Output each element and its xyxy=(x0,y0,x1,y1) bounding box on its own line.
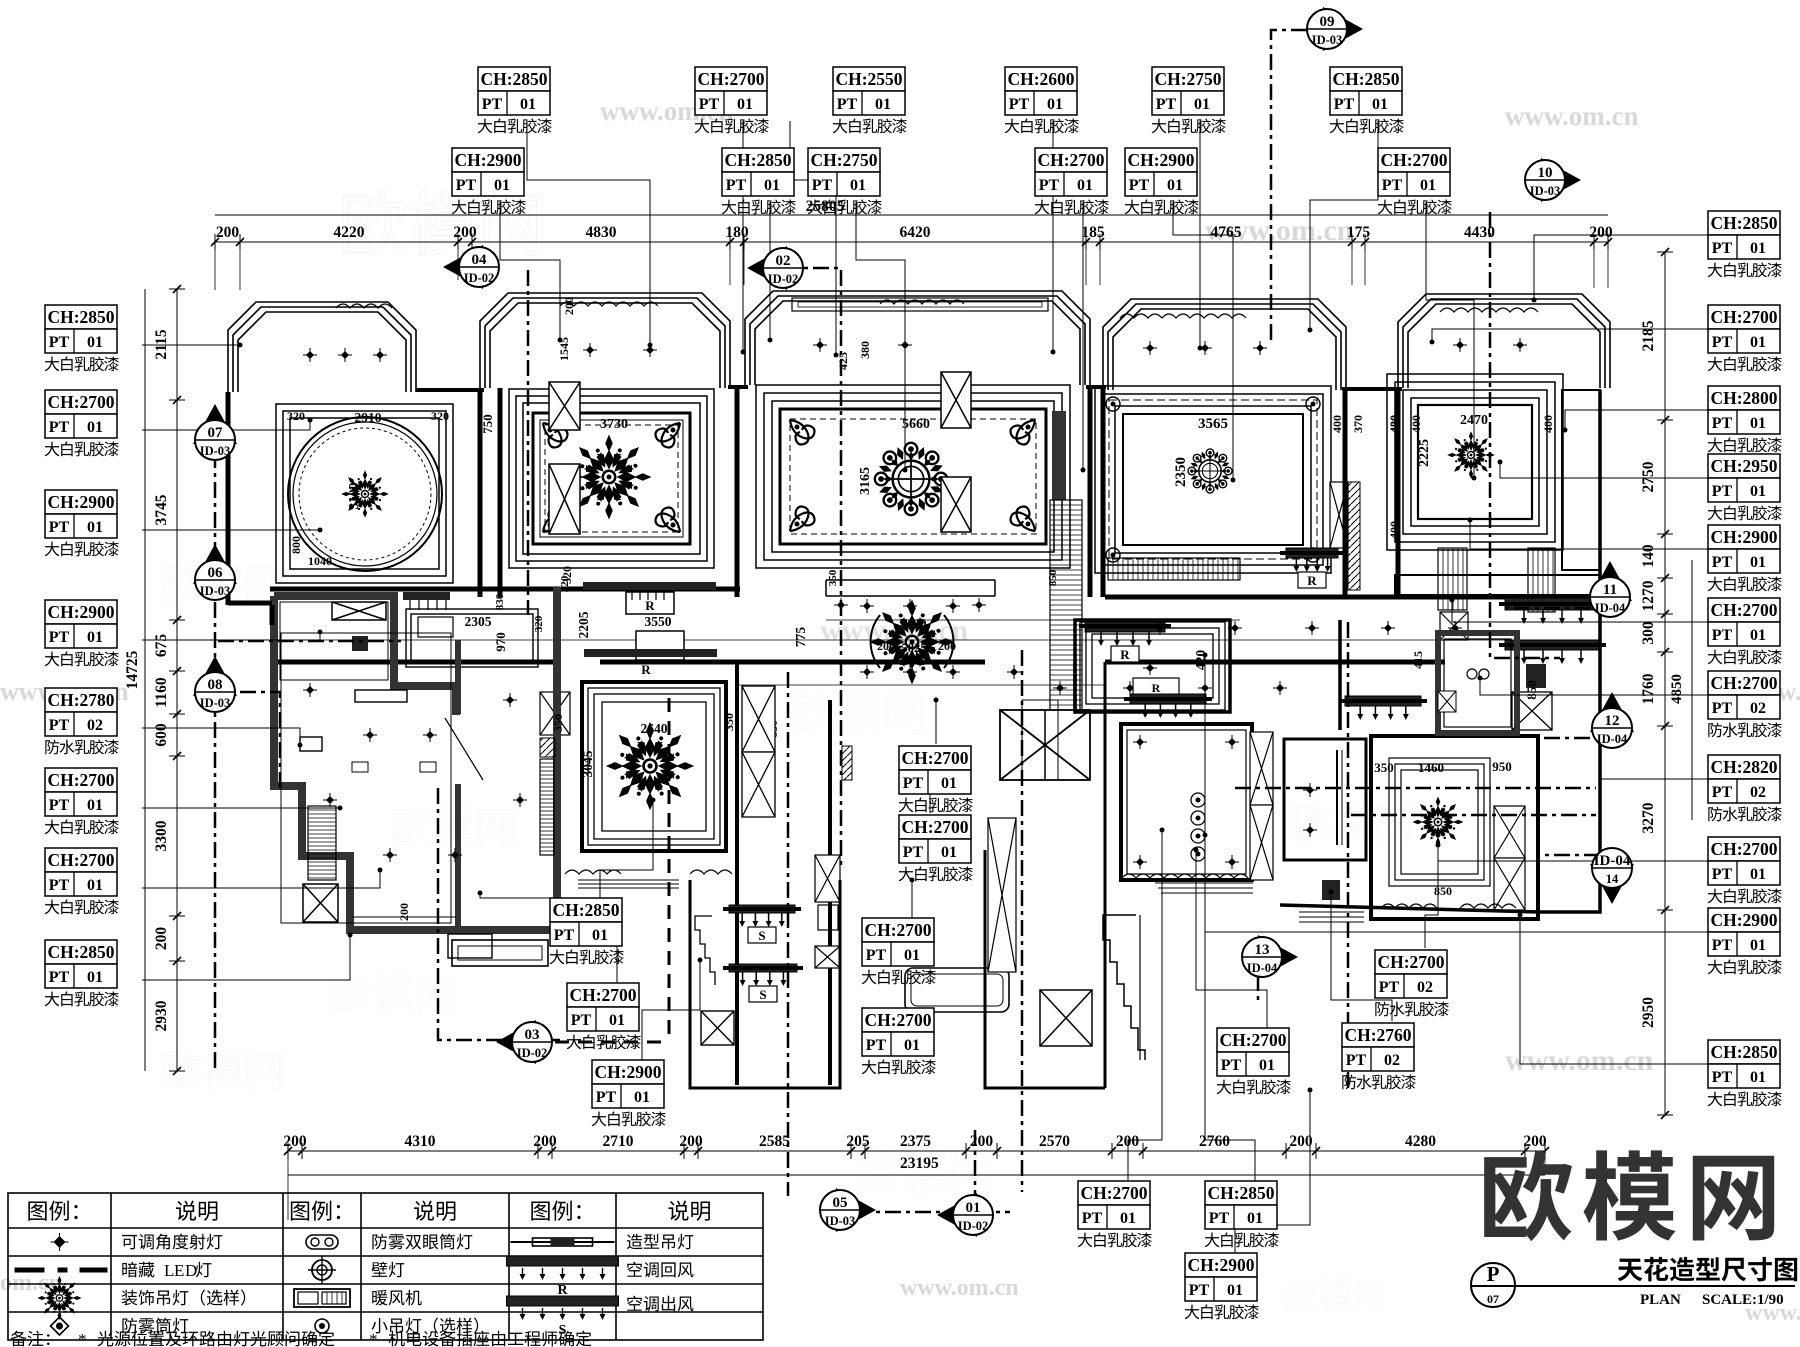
title text 天花造型尺寸图 xyxy=(1618,1259,1643,1282)
corridor H walls xyxy=(737,662,830,1085)
label CH:2600 xyxy=(1005,67,1079,133)
big logo 欧模网 xyxy=(1484,1150,1572,1241)
svg-text:CH:2700: CH:2700 xyxy=(864,1010,931,1030)
svg-text:01: 01 xyxy=(494,177,510,194)
dimension line vertical x=177 xyxy=(169,285,185,1075)
svg-text:PT: PT xyxy=(726,177,747,194)
svg-text:PT: PT xyxy=(456,177,477,194)
room F partition + door xyxy=(455,640,461,926)
label CH:2700 xyxy=(862,918,936,984)
svg-text:PT: PT xyxy=(1712,554,1733,571)
svg-text:3550: 3550 xyxy=(645,614,672,629)
svg-text:5825: 5825 xyxy=(902,641,927,655)
x-box columns xyxy=(549,382,580,430)
small hatch strip left of CH box xyxy=(842,746,852,780)
label CH:2700 xyxy=(1378,148,1452,214)
svg-text:04: 04 xyxy=(472,252,488,268)
legend symbol anti-fog downlight xyxy=(51,1317,69,1335)
svg-text:07: 07 xyxy=(208,425,224,441)
svg-text:CH:2700: CH:2700 xyxy=(901,817,968,837)
legend table xyxy=(8,1193,763,1340)
svg-text:02: 02 xyxy=(1750,784,1766,801)
label CH:2700 xyxy=(862,1008,936,1074)
room J walls xyxy=(1121,724,1252,880)
svg-text:350: 350 xyxy=(1374,760,1394,775)
svg-text:01: 01 xyxy=(764,177,780,194)
svg-text:CH:2850: CH:2850 xyxy=(1710,213,1777,233)
legend symbol shaped pendant bar xyxy=(511,1241,615,1243)
svg-text:415: 415 xyxy=(1411,651,1425,669)
svg-text:P: P xyxy=(1487,1262,1500,1286)
label CH:2700 xyxy=(899,746,973,812)
svg-text:775: 775 xyxy=(793,627,808,648)
svg-text:CH:2600: CH:2600 xyxy=(1007,69,1074,89)
svg-text:ID-03: ID-03 xyxy=(200,584,231,598)
svg-text:PT: PT xyxy=(49,969,70,986)
svg-text:3300: 3300 xyxy=(153,820,170,851)
corridor lamp rows right wing xyxy=(1156,624,1164,632)
svg-text:CH:2780: CH:2780 xyxy=(47,690,114,710)
svg-text:PT: PT xyxy=(1712,937,1733,954)
svg-text:PT: PT xyxy=(837,96,858,113)
svg-text:180: 180 xyxy=(725,224,749,241)
svg-text:PT: PT xyxy=(1712,240,1733,257)
note text under legend xyxy=(11,1331,27,1347)
svg-text:*: * xyxy=(78,1330,87,1347)
comb hatch below room D xyxy=(1108,558,1240,580)
svg-text:CH:2850: CH:2850 xyxy=(47,307,114,327)
svg-text:CH:2900: CH:2900 xyxy=(1127,150,1194,170)
svg-text:01: 01 xyxy=(1247,1210,1263,1227)
svg-text:PT: PT xyxy=(1346,1052,1367,1069)
svg-text:S: S xyxy=(759,987,766,1002)
svg-text:PT: PT xyxy=(812,177,833,194)
svg-text:CH:2700: CH:2700 xyxy=(1380,150,1447,170)
svg-text:PT: PT xyxy=(49,334,70,351)
svg-text:01: 01 xyxy=(1194,96,1210,113)
label CH:2900 xyxy=(1125,148,1199,214)
steps below room J xyxy=(1155,883,1253,893)
svg-text:5920: 5920 xyxy=(902,617,927,631)
svg-text:CH:2950: CH:2950 xyxy=(1710,456,1777,476)
small bench bottom-left xyxy=(452,940,548,966)
svg-text:2350: 2350 xyxy=(1173,457,1189,487)
central strip xboxes between rooms xyxy=(815,855,840,902)
svg-text:2640: 2640 xyxy=(641,721,668,736)
svg-text:PT: PT xyxy=(903,844,924,861)
detail marker 14/ID-04 xyxy=(1590,848,1634,904)
svg-text:PT: PT xyxy=(1712,784,1733,801)
legend symbol double-eye downlight xyxy=(306,1235,338,1249)
svg-text:850: 850 xyxy=(1524,680,1539,700)
detail marker 07/ID-03 xyxy=(193,404,237,460)
svg-text:200: 200 xyxy=(562,297,576,315)
room C large nested ceiling xyxy=(756,385,1070,568)
svg-text:850: 850 xyxy=(1434,884,1452,898)
svg-text:1760: 1760 xyxy=(1640,673,1657,704)
svg-text:02: 02 xyxy=(1384,1052,1400,1069)
svg-text:185: 185 xyxy=(1081,224,1105,241)
label CH:2700 xyxy=(1708,305,1782,371)
svg-text:3745: 3745 xyxy=(153,494,170,525)
room B nested ceiling xyxy=(509,389,714,568)
svg-text:3100: 3100 xyxy=(346,482,361,509)
svg-text:10: 10 xyxy=(1538,165,1553,181)
svg-text:01: 01 xyxy=(1227,1282,1243,1299)
svg-text:ID-04: ID-04 xyxy=(1595,601,1626,615)
svg-text:350: 350 xyxy=(827,569,839,586)
svg-text:01: 01 xyxy=(87,877,103,894)
top dim extension lines xyxy=(215,242,1608,290)
svg-text:D: D xyxy=(185,1261,197,1280)
svg-text:ID-03: ID-03 xyxy=(200,444,231,458)
svg-text:1460: 1460 xyxy=(1418,760,1444,775)
svg-text:01: 01 xyxy=(737,96,753,113)
corridor small room boxes xyxy=(406,609,538,667)
detail marker 04/ID-02 xyxy=(443,245,499,289)
svg-text:01: 01 xyxy=(87,797,103,814)
svg-text:4220: 4220 xyxy=(334,224,365,241)
room F bottom-left walls xyxy=(274,587,557,930)
svg-text:CH:2760: CH:2760 xyxy=(1344,1025,1411,1045)
bench below room F xyxy=(448,934,492,958)
svg-text:CH:2700: CH:2700 xyxy=(1037,150,1104,170)
svg-text:01: 01 xyxy=(1750,483,1766,500)
corridor lamp rows center xyxy=(837,601,845,609)
svg-text:CH:2700: CH:2700 xyxy=(47,392,114,412)
svg-text:3270: 3270 xyxy=(1640,802,1657,833)
svg-text:PT: PT xyxy=(49,797,70,814)
svg-text:CH:2700: CH:2700 xyxy=(47,850,114,870)
svg-text:850: 850 xyxy=(1047,569,1059,586)
svg-text:L: L xyxy=(164,1261,174,1280)
svg-text:23195: 23195 xyxy=(900,1155,939,1172)
svg-text:02: 02 xyxy=(1750,700,1766,717)
room F furniture marks xyxy=(355,690,407,702)
main top walls between bays xyxy=(416,387,1402,390)
svg-text:CH:2750: CH:2750 xyxy=(1154,69,1221,89)
svg-text:PT: PT xyxy=(1209,1210,1230,1227)
svg-text:PT: PT xyxy=(1712,866,1733,883)
svg-text:CH:2700: CH:2700 xyxy=(1710,839,1777,859)
detail marker 10/ID-03 xyxy=(1525,158,1581,202)
svg-text:ID-03: ID-03 xyxy=(1530,184,1561,198)
svg-text:2185: 2185 xyxy=(1640,320,1657,351)
tub shape xyxy=(905,968,1009,1012)
svg-text:E: E xyxy=(174,1261,184,1280)
svg-text:2910: 2910 xyxy=(355,410,382,425)
svg-text:380: 380 xyxy=(858,341,872,359)
svg-text:200: 200 xyxy=(938,639,956,653)
svg-text:200: 200 xyxy=(970,1133,994,1150)
detail marker 09/ID-03 xyxy=(1307,7,1363,51)
svg-text:675: 675 xyxy=(153,634,170,658)
corridor rosette medallion xyxy=(870,600,955,685)
svg-text:2930: 2930 xyxy=(153,1000,170,1031)
svg-text:4765: 4765 xyxy=(1211,224,1242,241)
svg-text:R: R xyxy=(641,662,651,677)
svg-text:01: 01 xyxy=(1750,627,1766,644)
svg-text:CH:2700: CH:2700 xyxy=(864,920,931,940)
svg-text:PT: PT xyxy=(866,947,887,964)
svg-text:300: 300 xyxy=(1640,621,1657,645)
svg-text:200: 200 xyxy=(153,927,170,951)
svg-text:CH:2850: CH:2850 xyxy=(1710,1042,1777,1062)
svg-text:PT: PT xyxy=(1712,1069,1733,1086)
label CH:2850 xyxy=(1330,67,1404,133)
svg-text:PT: PT xyxy=(1712,334,1733,351)
svg-text:01: 01 xyxy=(904,947,920,964)
legend symbol AC return xyxy=(507,1256,619,1266)
svg-text:01: 01 xyxy=(966,1200,981,1216)
svg-text:CH:2850: CH:2850 xyxy=(47,942,114,962)
svg-text:01: 01 xyxy=(1750,554,1766,571)
svg-text:1040: 1040 xyxy=(308,554,332,568)
svg-text:CH:2700: CH:2700 xyxy=(47,770,114,790)
detail marker 05/ID-03 xyxy=(820,1188,876,1232)
svg-text:600: 600 xyxy=(153,723,170,747)
svg-text:CH:2850: CH:2850 xyxy=(724,150,791,170)
detail marker 08/ID-03 xyxy=(193,656,237,712)
3550 box xyxy=(636,631,684,660)
bay window outline xyxy=(745,291,1090,385)
svg-text:01: 01 xyxy=(875,96,891,113)
svg-text:13: 13 xyxy=(1255,942,1270,958)
svg-text:01: 01 xyxy=(1077,177,1093,194)
label CH:2900 xyxy=(45,490,119,556)
svg-text:4830: 4830 xyxy=(586,224,617,241)
svg-text:CH:2700: CH:2700 xyxy=(1377,952,1444,972)
label CH:2700 xyxy=(899,815,973,881)
svg-text:R: R xyxy=(1152,681,1161,695)
svg-text:350: 350 xyxy=(722,713,736,731)
long dash-dot central left xyxy=(787,672,790,1196)
bathroom top-right xyxy=(1438,633,1517,733)
svg-text:PT: PT xyxy=(1379,979,1400,996)
bay window outline xyxy=(1398,294,1610,388)
svg-text:320: 320 xyxy=(431,409,449,423)
bay window outline xyxy=(228,302,416,392)
x strip in room L xyxy=(1494,806,1525,858)
svg-text:CH:2900: CH:2900 xyxy=(594,1062,661,1082)
room A walls + circular ceiling xyxy=(276,404,453,583)
svg-text:PT: PT xyxy=(571,1012,592,1029)
svg-text:www.om.cn: www.om.cn xyxy=(1505,1044,1654,1077)
label CH:2850 xyxy=(722,148,796,214)
svg-text:*: * xyxy=(369,1330,378,1347)
svg-text:2225: 2225 xyxy=(1417,439,1432,467)
svg-text:PT: PT xyxy=(1712,627,1733,644)
svg-text:08: 08 xyxy=(208,677,223,693)
room F interior thin outline xyxy=(281,633,451,923)
svg-text:PT: PT xyxy=(1221,1057,1242,1074)
bay window outline xyxy=(1103,299,1346,390)
svg-text:CH:2900: CH:2900 xyxy=(47,602,114,622)
hall outline below room C xyxy=(826,580,995,596)
svg-text:PT: PT xyxy=(866,1037,887,1054)
svg-text:CH:2800: CH:2800 xyxy=(1710,388,1777,408)
detail marker 03/ID-02 xyxy=(496,1020,552,1064)
dimension line horizontal y=1151 xyxy=(284,1143,1549,1159)
svg-text:CH:2850: CH:2850 xyxy=(552,900,619,920)
legend symbol decorative chandelier xyxy=(37,1276,81,1320)
room K walls xyxy=(1284,739,1366,860)
svg-text:01: 01 xyxy=(1167,177,1183,194)
svg-text:4850: 4850 xyxy=(1669,674,1685,704)
corridor walls xyxy=(270,589,1600,662)
label CH:2700 xyxy=(1035,148,1109,214)
svg-text:01: 01 xyxy=(609,1012,625,1029)
svg-text:CH:2850: CH:2850 xyxy=(480,69,547,89)
svg-text:01: 01 xyxy=(1420,177,1436,194)
svg-text:3730: 3730 xyxy=(600,417,628,432)
svg-text:PT: PT xyxy=(1712,700,1733,717)
elevator xboxes xyxy=(1000,710,1090,780)
detail marker 12/ID-04 xyxy=(1590,692,1634,748)
room G nested ceiling xyxy=(582,682,726,851)
svg-text:200: 200 xyxy=(679,1133,703,1150)
svg-text:PT: PT xyxy=(699,96,720,113)
svg-text:R: R xyxy=(1120,647,1130,662)
svg-text:01: 01 xyxy=(634,1089,650,1106)
label CH:2780 xyxy=(45,688,119,754)
room F bottom double lines xyxy=(352,916,456,918)
coil strip left of room G xyxy=(540,738,555,757)
vent fans S xyxy=(729,905,795,913)
room L walls xyxy=(1371,736,1538,919)
label CH:2900 xyxy=(452,148,526,214)
label CH:2900 xyxy=(1185,1253,1259,1319)
svg-text:CH:2900: CH:2900 xyxy=(1710,910,1777,930)
svg-text:PT: PT xyxy=(49,519,70,536)
svg-text:ID-04: ID-04 xyxy=(1247,961,1278,975)
svg-text:01: 01 xyxy=(1259,1057,1275,1074)
svg-text:PT: PT xyxy=(1082,1210,1103,1227)
svg-text:2710: 2710 xyxy=(603,1133,634,1150)
label CH:2950 xyxy=(1708,454,1782,520)
svg-text:07: 07 xyxy=(1487,1292,1499,1306)
x strip right of room J xyxy=(1250,732,1273,805)
label CH:2700 xyxy=(45,390,119,456)
corridor thin guide lines xyxy=(270,620,1600,685)
svg-text:01: 01 xyxy=(1047,96,1063,113)
svg-text:PT: PT xyxy=(596,1089,617,1106)
svg-text:01: 01 xyxy=(850,177,866,194)
svg-text:01: 01 xyxy=(1750,1069,1766,1086)
dash-dot callout lines xyxy=(527,270,530,615)
svg-text:200: 200 xyxy=(533,1133,557,1150)
title line xyxy=(1471,1285,1795,1287)
room F xboxes xyxy=(332,602,386,620)
svg-text:4280: 4280 xyxy=(1405,1133,1436,1150)
bay window outline xyxy=(480,293,730,388)
legend symbol wall lamp xyxy=(312,1260,332,1280)
svg-text:PLAN: PLAN xyxy=(1640,1292,1681,1308)
svg-text:01: 01 xyxy=(941,775,957,792)
svg-text:2760: 2760 xyxy=(1199,1133,1230,1150)
svg-text:PT: PT xyxy=(1382,177,1403,194)
detail marker 01/ID-02 xyxy=(937,1193,993,1237)
steps left small room xyxy=(695,916,715,985)
label CH:2700 xyxy=(1708,598,1782,664)
svg-text:1270: 1270 xyxy=(1640,580,1657,611)
svg-text:3045: 3045 xyxy=(580,750,595,777)
svg-text:01: 01 xyxy=(1750,240,1766,257)
svg-text:CH:2750: CH:2750 xyxy=(810,150,877,170)
dimension line horizontal y=242 xyxy=(211,234,1612,250)
label CH:2820 xyxy=(1708,755,1782,821)
label CH:2700 xyxy=(695,67,769,133)
svg-text:01: 01 xyxy=(1750,866,1766,883)
svg-text:R: R xyxy=(645,598,655,613)
svg-text:09: 09 xyxy=(1320,14,1335,30)
svg-text:R: R xyxy=(1307,573,1317,588)
svg-text:2115: 2115 xyxy=(153,329,170,359)
svg-text:PT: PT xyxy=(49,629,70,646)
svg-text:970: 970 xyxy=(493,632,508,652)
label CH:2900 xyxy=(45,600,119,666)
right edge rooms xyxy=(1395,390,1600,595)
svg-text:01: 01 xyxy=(87,969,103,986)
svg-text:SCALE:1/90: SCALE:1/90 xyxy=(1702,1292,1784,1308)
lower-left corridor combs xyxy=(1050,500,1082,718)
svg-text:950: 950 xyxy=(1492,759,1512,774)
svg-text:3565: 3565 xyxy=(1198,416,1228,432)
svg-text:200: 200 xyxy=(397,903,411,921)
svg-text:01: 01 xyxy=(87,519,103,536)
detail marker 06/ID-03 xyxy=(193,544,237,600)
label CH:2850 xyxy=(45,305,119,371)
svg-text:06: 06 xyxy=(208,565,224,581)
small right rooms walls xyxy=(1075,390,1600,912)
label CH:2850 xyxy=(1205,1181,1279,1247)
label CH:2760 xyxy=(1342,1023,1416,1089)
svg-text:4310: 4310 xyxy=(405,1133,436,1150)
svg-text:02: 02 xyxy=(1417,979,1433,996)
label CH:2700 xyxy=(1217,1028,1291,1094)
svg-text:01: 01 xyxy=(87,629,103,646)
svg-text:12: 12 xyxy=(1605,713,1620,729)
svg-text:2305: 2305 xyxy=(465,614,492,629)
svg-text:175: 175 xyxy=(1347,224,1371,241)
svg-text:200: 200 xyxy=(283,1133,307,1150)
svg-text:6420: 6420 xyxy=(900,224,931,241)
svg-text:ID-02: ID-02 xyxy=(768,272,799,286)
svg-text:2750: 2750 xyxy=(1640,461,1657,492)
svg-text:11: 11 xyxy=(1603,582,1617,598)
svg-text:PT: PT xyxy=(903,775,924,792)
small rooms bottom-center walls xyxy=(690,662,1105,1088)
svg-text:CH:2820: CH:2820 xyxy=(1710,757,1777,777)
label CH:2900 xyxy=(1708,908,1782,974)
vent right of room D xyxy=(1286,548,1338,558)
svg-text:01: 01 xyxy=(1120,1210,1136,1227)
svg-text:PT: PT xyxy=(1129,177,1150,194)
legend symbol small pendant xyxy=(315,1319,329,1333)
svg-text:PT: PT xyxy=(1156,96,1177,113)
staircase steps left xyxy=(1103,915,1145,1060)
svg-text:CH:2700: CH:2700 xyxy=(1710,307,1777,327)
svg-text:CH:2850: CH:2850 xyxy=(1332,69,1399,89)
svg-text:2570: 2570 xyxy=(1039,1133,1070,1150)
svg-text:200: 200 xyxy=(1589,224,1613,241)
label CH:2850 xyxy=(1708,1040,1782,1106)
legend symbol adjustable spotlight xyxy=(54,1236,66,1248)
svg-text:PT: PT xyxy=(1189,1282,1210,1299)
legend symbol hidden LED xyxy=(15,1268,108,1273)
svg-text:CH:2700: CH:2700 xyxy=(569,985,636,1005)
label CH:2700 xyxy=(1375,950,1449,1016)
